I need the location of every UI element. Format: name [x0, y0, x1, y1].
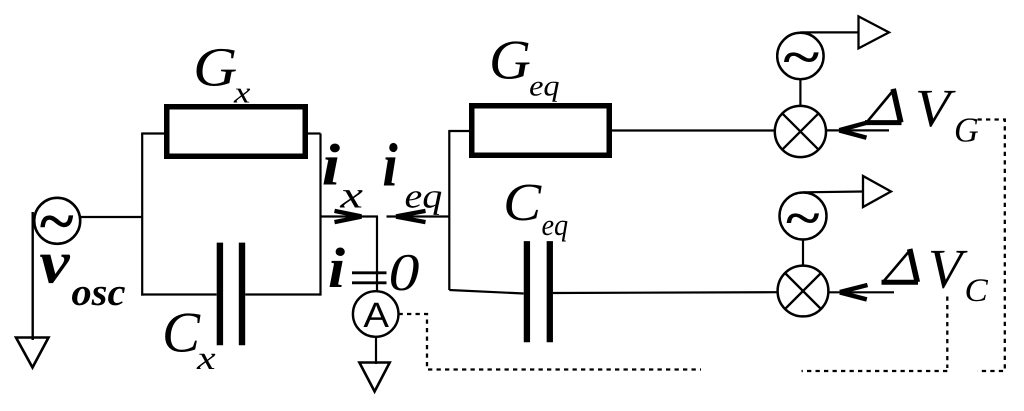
svg-text:x: x — [233, 75, 251, 109]
svg-text:i: i — [382, 132, 397, 200]
svg-text:~: ~ — [784, 190, 820, 247]
svg-text:A: A — [363, 296, 389, 335]
svg-text:~: ~ — [781, 29, 820, 86]
svg-text:i: i — [328, 237, 345, 300]
svg-text:C: C — [162, 301, 201, 364]
svg-text:V: V — [915, 78, 956, 138]
svg-text:v: v — [39, 230, 70, 297]
svg-text:G: G — [489, 30, 531, 92]
svg-text:x: x — [196, 340, 216, 377]
svg-text:C: C — [965, 273, 989, 309]
svg-text:osc: osc — [71, 271, 125, 314]
svg-text:eq: eq — [529, 70, 560, 102]
svg-text:0: 0 — [389, 244, 420, 302]
svg-text:G: G — [954, 111, 979, 150]
svg-text:G: G — [193, 36, 237, 97]
svg-text:eq: eq — [542, 208, 569, 242]
svg-text:V: V — [928, 238, 968, 300]
svg-text:eq: eq — [405, 177, 443, 216]
svg-text:C: C — [503, 172, 542, 232]
svg-text:x: x — [339, 175, 363, 217]
svg-text:i: i — [322, 132, 341, 198]
